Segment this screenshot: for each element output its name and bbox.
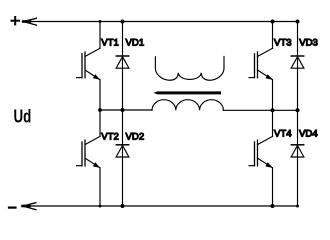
wire VT4 collector lead (272, 110, 274, 136)
svg-text:Ud: Ud (14, 106, 32, 127)
wire VT1 emitter lead (99, 80, 101, 111)
transistor Q VT4 (249, 136, 273, 168)
svg-text:VT4: VT4 (274, 128, 292, 139)
junction dot VD3 top rail corner (296, 20, 300, 24)
wire VT3 emitter lead (272, 80, 274, 111)
junction dot node B at VT column (271, 108, 275, 112)
wire VT3 collector lead (272, 22, 274, 49)
svg-text:VD3: VD3 (299, 38, 318, 49)
wire VT2 emitter lead (99, 168, 101, 206)
transistor Q VT3 (249, 48, 273, 80)
svg-text:VD1: VD1 (126, 38, 145, 49)
diode VD1 (116, 56, 129, 68)
svg-text:VD2: VD2 (126, 131, 145, 142)
arrow left end of top rail (23, 18, 36, 25)
transformer T1 secondary winding (155, 57, 224, 81)
wire top positive rail (23, 21, 298, 23)
wire VD4 branch vertical (297, 110, 299, 206)
wire VT1 collector lead (99, 22, 101, 49)
svg-text:VT1: VT1 (101, 38, 119, 49)
wire VD1 branch vertical (122, 22, 124, 111)
junction dot node A at VT column (98, 108, 102, 112)
wire VD3 branch vertical (297, 22, 299, 111)
junction dot node B at VD column (296, 108, 300, 112)
transformer T1 core bar with arrow (154, 91, 222, 94)
minus terminal label (9, 207, 16, 209)
junction dot node A at VD column (121, 108, 125, 112)
junction dot VT2 bottom rail (99, 205, 102, 208)
transformer T1 primary winding (152, 100, 223, 111)
svg-text:VT3: VT3 (274, 38, 292, 49)
transistor Q VT1 (77, 48, 101, 80)
junction dot VD1 top rail (121, 20, 125, 24)
svg-text:VD4: VD4 (299, 128, 318, 139)
junction dot VD4 bottom rail corner (296, 205, 299, 208)
arrow left end of bottom rail (23, 203, 36, 210)
transistor Q VT2 (77, 136, 101, 168)
plus terminal label (12, 17, 20, 24)
junction dot VT3 top rail (271, 20, 275, 24)
diode VD4 (291, 145, 304, 157)
junction dot VT1 top rail (99, 20, 102, 23)
svg-text:VT2: VT2 (101, 131, 119, 142)
wire VT2 collector lead (99, 110, 101, 136)
wire right midpoint node B (223, 109, 297, 111)
diode VD3 (291, 56, 304, 68)
wire bottom negative rail (22, 205, 297, 207)
wire VT4 emitter lead (272, 168, 274, 206)
wire VD2 branch vertical (122, 110, 124, 206)
junction dot VD2 bottom rail (121, 204, 125, 208)
wire left midpoint node A (100, 109, 152, 111)
junction dot VT4 bottom rail (271, 204, 275, 208)
diode VD2 (116, 145, 129, 157)
